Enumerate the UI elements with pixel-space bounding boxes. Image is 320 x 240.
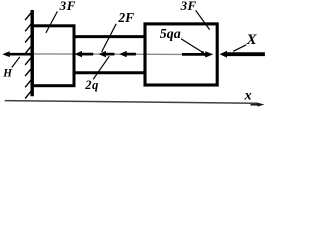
axis centerline (grey) [33,53,182,56]
leader 2F [102,24,117,52]
bar segment 3 (right block) [145,24,217,85]
leader 3F right [196,10,210,29]
distributed load 2q arrow 1 [80,53,93,56]
svg-text:X: X [246,32,258,48]
svg-text:2F: 2F [117,10,134,25]
force X arrow [225,52,265,56]
bar segment 1 (left block) [32,26,74,86]
svg-text:x: x [244,88,252,103]
distributed load 2q arrow 2 [104,53,114,56]
leader H [12,57,20,68]
svg-text:3F: 3F [59,0,76,13]
ground line [5,101,258,104]
force 5qa arrow [182,53,206,56]
leader 3F left [46,11,58,33]
svg-text:5qa: 5qa [160,27,181,42]
leader 5qa arrowhead [200,51,206,56]
bar segment 2 (middle, bottom edge) [73,71,146,74]
leader 2q [93,56,109,79]
bar segment 2 (middle, top edge) [73,35,146,38]
svg-text:3F: 3F [180,0,197,13]
reaction force H arrow [6,53,34,56]
distributed load 2q arrow 3 [125,53,136,56]
wall line [31,10,34,96]
leader X [233,45,246,52]
wall hatching [25,11,33,99]
svg-text:H: H [2,68,12,80]
x axis arrowhead [251,104,260,106]
leader 5qa [181,39,203,53]
svg-text:2q: 2q [84,78,99,92]
